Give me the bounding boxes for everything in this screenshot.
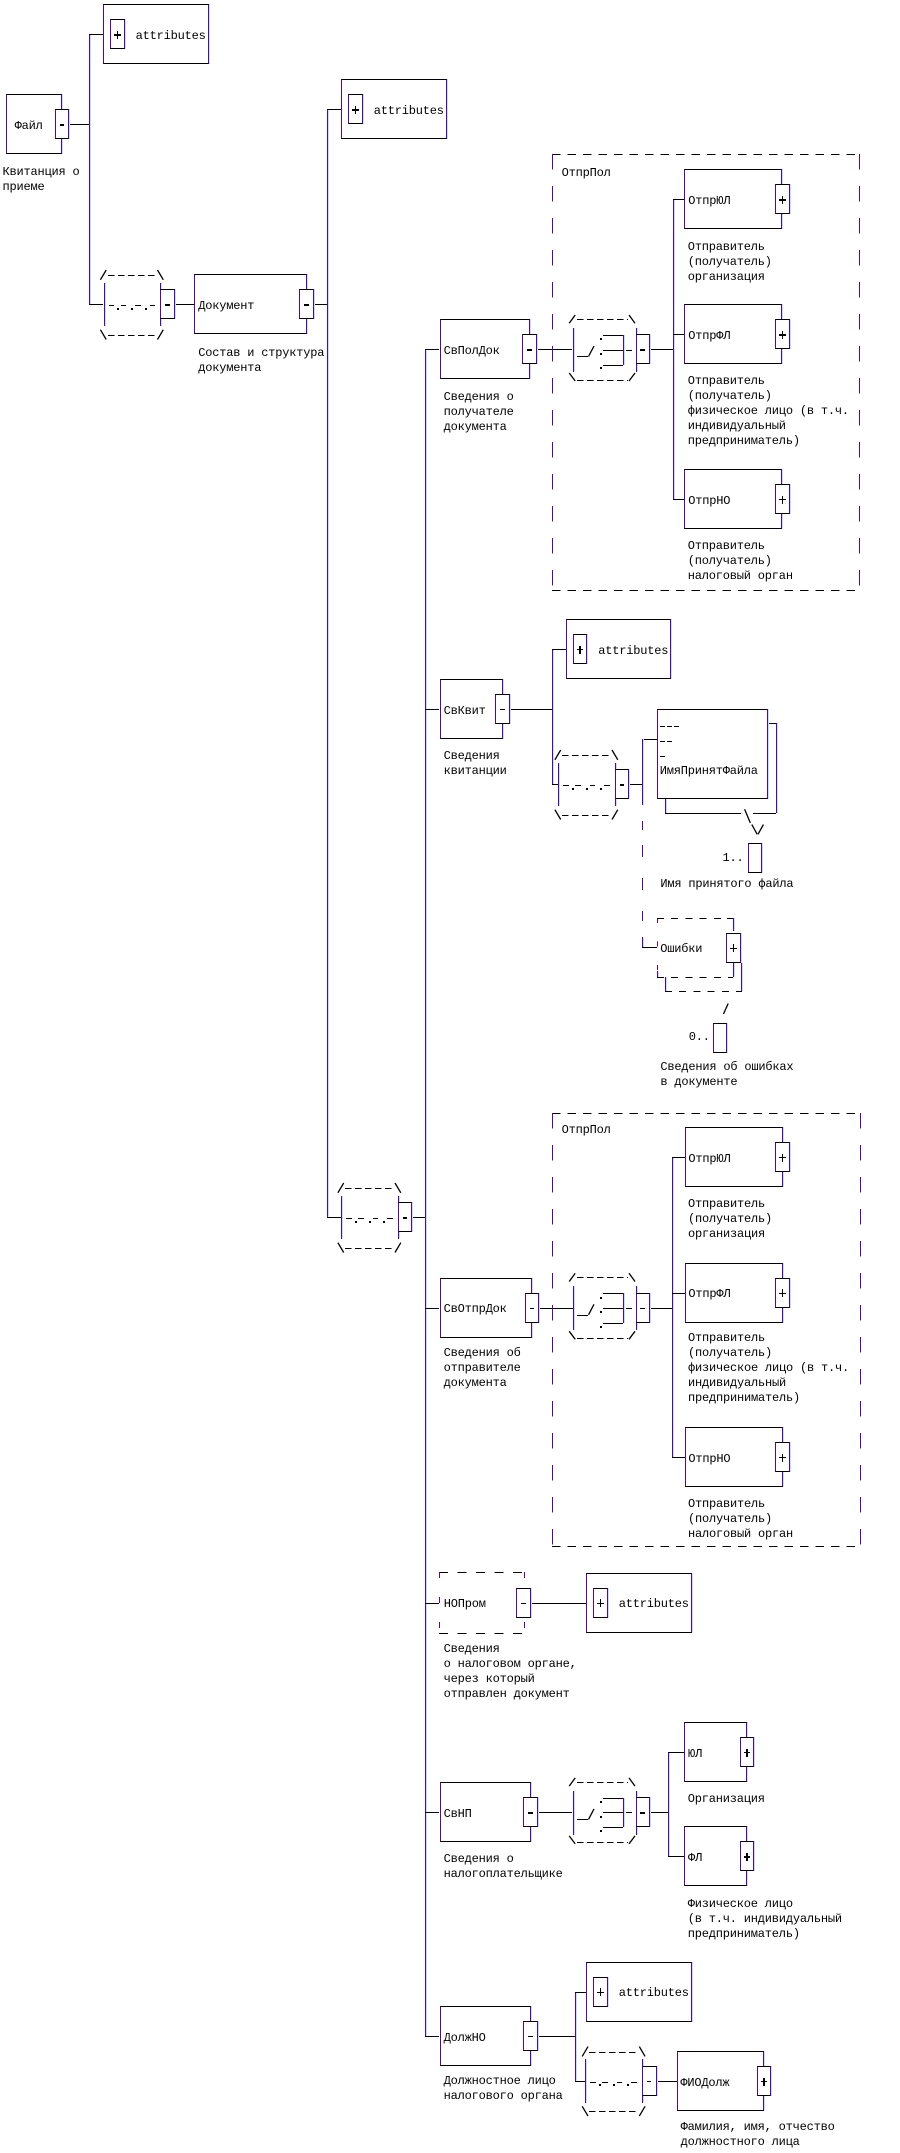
sequence2 (СвКвит children) mid dash 4 — [604, 785, 610, 786]
annotation Состав и структура документа — [198, 346, 324, 376]
wire: trunk choice1 branches — [673, 199, 674, 499]
element СвПолДок — [440, 319, 530, 379]
collapse - of СвКвит — [495, 694, 510, 724]
ИмяПринятФайла back right — [776, 723, 777, 813]
sequence4 (ДолжНО children) left bar — [585, 2059, 586, 2103]
ИмяПринятФайла back left stub — [665, 799, 666, 813]
annotation Сведения квитанции — [444, 749, 507, 779]
choice1 (СвПолДок) dot bottom — [600, 367, 602, 369]
label attributes (СвКвит) — [598, 644, 668, 659]
annotation ОтпрФЛ (2) — [688, 1331, 849, 1406]
wire: to ИмяПринятФайла box — [642, 739, 656, 740]
wire: trunk3 to ДолжНО — [425, 2036, 439, 2037]
sequence2 (СвКвит children) mid dash 1 — [563, 785, 569, 786]
Ошибки shadow left stub — [665, 977, 666, 991]
sequence4 (ДолжНО children) bottom dashes — [589, 2111, 637, 2112]
collapse - of СвОтпрДок — [525, 1293, 540, 1323]
choice3 (СвНП) mid out dash — [626, 1812, 632, 1813]
wire: trunk СвКвит children — [552, 649, 553, 785]
sequence3 (Документ children) bottom dashes — [345, 1248, 393, 1249]
label ОтпрНО (1) — [688, 494, 730, 509]
ИмяПринятФайла inner dash r3a — [660, 756, 665, 757]
group2 right — [860, 1113, 861, 1546]
sequence1 (Файл/Документ row) bottom dashes — [108, 335, 156, 336]
expand + of Ошибки — [726, 933, 741, 963]
sequence3 (Документ children) right bar — [398, 1196, 399, 1240]
element ДолжНО — [440, 2006, 531, 2066]
choice2 (СвОтпрДок) mid out dash — [626, 1308, 632, 1309]
sequence2 (СвКвит children) mid dash 3 — [590, 785, 596, 786]
expand + of attributes (НОПром) — [593, 1588, 608, 1618]
element ОтпрЮЛ (1) — [684, 169, 782, 229]
choice3 (СвНП) branch line top — [603, 1798, 623, 1799]
choice1 (СвПолДок) right bar — [636, 328, 637, 372]
label СвОтпрДок — [444, 1302, 507, 1317]
wire: trunk ДолжНО children — [575, 1992, 576, 2081]
element ФЛ — [684, 1826, 747, 1886]
expand + of ОтпрФЛ (1) — [775, 319, 790, 349]
label ФЛ — [688, 1851, 702, 1866]
Ошибки corner BL v — [657, 971, 658, 977]
element ОтпрФЛ (1) — [684, 304, 782, 364]
sequence3 (Документ children) mid dot 3 — [383, 1221, 385, 1223]
choice3 (СвНП) branch line mid — [603, 1812, 623, 1813]
Ошибки corner BL h — [657, 977, 663, 978]
annotation Сведения об отправителе документа — [444, 1346, 521, 1391]
Ошибки shadow right — [741, 963, 742, 991]
ИмяПринятФайла inner dash r2b — [667, 741, 672, 742]
label СвПолДок — [444, 344, 500, 359]
sequence1 (Файл/Документ row) top dashes — [108, 275, 156, 276]
group1 right — [859, 154, 860, 590]
wire: СвОтпрДок minus to choice2 — [539, 1308, 572, 1309]
wire: trunk1 to attributes1 — [89, 34, 103, 35]
choice2 (СвОтпрДок) branch line top — [603, 1293, 623, 1294]
choice1 (СвПолДок) dot top — [600, 338, 602, 340]
sequence3 (Документ children) top dashes — [345, 1188, 393, 1189]
sequence1 (Файл/Документ row) left bar — [104, 283, 105, 327]
wire: trunk5 to ОтпрЮЛ2 — [672, 1157, 685, 1158]
element attributes (НОПром) — [586, 1573, 692, 1633]
choice1 (СвПолДок) dot mid — [600, 353, 602, 355]
choice1 (СвПолДок) top dashes — [577, 319, 628, 320]
expand + of attributes (Файл) — [110, 19, 125, 49]
expand + of attributes (ДолжНО) — [593, 1977, 608, 2007]
choice3 (СвНП) left bar — [573, 1791, 574, 1835]
sequence4 (ДолжНО children) mid dot 3 — [627, 2084, 629, 2086]
sequence3 (Документ children) mid dash 4 — [387, 1218, 393, 1219]
expand + of ОтпрЮЛ (2) — [775, 1142, 790, 1172]
НОПром left — [439, 1572, 440, 1633]
wire: trunk6 to ФЛ — [668, 1856, 684, 1857]
collapse - of Документ — [299, 289, 314, 319]
collapse - of choice3 — [636, 1797, 651, 1827]
wire: big sequence minus to trunk3 — [412, 1217, 425, 1218]
sequence3 (Документ children) mid dash 1 — [346, 1218, 352, 1219]
collapse - of choice2 — [636, 1293, 651, 1323]
element ИмяПринятФайла front box — [657, 709, 768, 799]
wire: choice2 minus to trunk5 — [650, 1308, 672, 1309]
wire: СвКвит minus to trunkQ — [510, 709, 552, 710]
sequence2 (СвКвит children) bottom dashes — [562, 815, 610, 816]
annotation Сведения о получателе документа — [444, 390, 514, 435]
wire: СвПолДок minus to choice1 — [537, 349, 573, 350]
Ошибки right top solid — [733, 918, 734, 932]
wire: trunk from sequence to Документ children — [425, 349, 426, 2036]
wire: choice1 minus to trunk4 — [650, 349, 673, 350]
choice2 (СвОтпрДок) bottom dashes — [577, 1338, 628, 1339]
sequence2 (СвКвит children) top dashes — [562, 755, 610, 756]
choice1 (СвПолДок) branch line mid — [603, 350, 623, 351]
group2 bottom — [552, 1546, 860, 1547]
wire: trunk4 to ОтпрФЛ — [673, 334, 685, 335]
Ошибки shadow corner L — [665, 991, 670, 992]
sequence1 (Файл/Документ row) mid dash 2 — [121, 305, 127, 306]
НОПром right — [524, 1572, 525, 1633]
label attributes (Файл) — [136, 29, 206, 44]
collapse - of НОПром — [516, 1588, 531, 1618]
label ОтпрФЛ (1) — [688, 329, 730, 344]
wire: Документ minus to trunk2 — [314, 304, 328, 305]
element ЮЛ — [684, 1722, 747, 1782]
dash segment 910.5 — [642, 911, 643, 922]
wire: sequence1 to Документ — [175, 304, 195, 305]
annotation НОПром — [444, 1642, 577, 1702]
choice1 (СвПолДок) bottom dashes — [577, 380, 628, 381]
group1 bottom — [552, 590, 860, 591]
Ошибки left — [657, 918, 658, 977]
label НОПром — [444, 1597, 486, 1612]
wire: trunk1 to sequence1 — [89, 304, 103, 305]
group1 top — [552, 154, 860, 155]
sequence1 (Файл/Документ row) right bar — [160, 283, 161, 327]
collapse - of СвПолДок — [522, 334, 537, 364]
wire: trunk3 to СвПолДок — [425, 349, 439, 350]
wire: trunk3 to НОПром — [425, 1603, 439, 1604]
wire: trunk choice2 branches — [672, 1157, 673, 1457]
collapse - of Файл — [55, 109, 70, 139]
annotation Имя принятого файла — [660, 877, 793, 892]
sequence4 (ДолжНО children) mid dash 2 — [602, 2082, 608, 2083]
wire: СвНП minus to choice3 — [538, 1812, 573, 1813]
ИмяПринятФайла back bottom left — [665, 813, 741, 814]
wire: trunk4 to ОтпрЮЛ — [673, 199, 685, 200]
choice1 (СвПолДок) left bar — [573, 328, 574, 372]
Ошибки corner TL h — [657, 918, 663, 919]
choice3 (СвНП) bottom dashes — [577, 1842, 628, 1843]
expand + of ОтпрНО (2) — [775, 1442, 790, 1472]
annotation Квитанция о приеме — [3, 165, 80, 195]
wire: trunk5 to ОтпрФЛ2 — [672, 1293, 685, 1294]
sequence4 (ДолжНО children) top dashes — [589, 2052, 637, 2053]
label ДолжНО — [444, 2031, 486, 2046]
group label ОтпрПол (1) — [562, 166, 611, 181]
collapse - of sequence4 — [642, 2066, 657, 2096]
element ОтпрФЛ (2) — [685, 1263, 783, 1323]
choice2 (СвОтпрДок) right bar — [636, 1286, 637, 1330]
collapse - of sequence2 — [615, 769, 630, 799]
wire: trunk from Документ to children — [327, 109, 328, 1217]
expand + of attributes (Документ) — [348, 94, 363, 124]
wire: trunkQ to attributes3 — [552, 649, 566, 650]
dash segment 877.8 — [642, 878, 643, 891]
choice2 (СвОтпрДок) top dashes — [577, 1277, 628, 1278]
choice3 (СвНП) dot top — [600, 1801, 602, 1803]
element СвОтпрДок — [440, 1278, 533, 1338]
sequence2 (СвКвит children) mid dot 2 — [586, 788, 588, 790]
choice2 (СвОтпрДок) dot bottom — [600, 1326, 602, 1328]
sequence4 (ДолжНО children) mid dash 4 — [631, 2082, 637, 2083]
choice3 (СвНП) branch bracket — [623, 1798, 624, 1828]
collapse - of sequence1 — [160, 289, 175, 319]
wire: sequence4 minus to ФИОДолж — [657, 2081, 678, 2082]
element attributes (ДолжНО) — [586, 1962, 692, 2022]
wire: trunk4 to ОтпрНО — [673, 499, 685, 500]
wire: trunk5 to ОтпрНО2 — [672, 1457, 685, 1458]
sequence2 (СвКвит children) mid dot 1 — [572, 788, 574, 790]
wire: trunk7 to attributes5 — [575, 1992, 587, 1993]
element Документ — [194, 274, 306, 334]
sequence4 (ДолжНО children) mid dash 3 — [617, 2082, 623, 2083]
annotation ОтпрНО (2) — [688, 1497, 793, 1542]
choice3 (СвНП) branch line bottom — [603, 1827, 623, 1828]
label Документ — [198, 299, 254, 314]
wire: Файл minus to trunk1 — [69, 124, 89, 125]
choice2 (СвОтпрДок) dot top — [600, 1297, 602, 1299]
annotation ФИОДолж — [681, 2120, 835, 2150]
element attributes (Документ) — [341, 79, 447, 139]
wire: choice3 minus to trunk6 — [650, 1812, 668, 1813]
label 0.. — [689, 1030, 710, 1045]
element ФИОДолж — [677, 2051, 764, 2111]
ИмяПринятФайла back top — [768, 723, 776, 724]
annotation Сведения об ошибках в документе — [660, 1060, 793, 1090]
label Файл — [15, 119, 43, 134]
choice1 (СвПолДок) branch line top — [603, 335, 623, 336]
ИмяПринятФайла inner dash r1a — [660, 726, 665, 727]
ИмяПринятФайла inner dash r1b — [667, 726, 672, 727]
expand + of ОтпрФЛ (2) — [775, 1278, 790, 1308]
annotation ОтпрЮЛ (2) — [688, 1197, 772, 1242]
label ИмяПринятФайла — [660, 764, 758, 779]
sequence4 (ДолжНО children) mid dot 1 — [599, 2084, 601, 2086]
Ошибки top — [657, 918, 733, 919]
wire: НОПром minus to attributes4 — [531, 1603, 586, 1604]
sequence2 (СвКвит children) mid dash 2 — [575, 785, 581, 786]
wire: trunk6 to ЮЛ — [668, 1752, 684, 1753]
НОПром top — [439, 1572, 524, 1573]
annotation ОтпрЮЛ (1) — [688, 240, 772, 285]
wire: ДолжНО minus to trunk7 — [538, 2036, 575, 2037]
label СвКвит — [444, 704, 486, 719]
sequence4 (ДолжНО children) mid dash 1 — [590, 2082, 596, 2083]
sequence1 (Файл/Документ row) mid dot 3 — [145, 308, 147, 310]
sequence2 (СвКвит children) mid dot 3 — [600, 788, 602, 790]
label ОтпрЮЛ (1) — [688, 194, 730, 209]
wire: seq2 vertical solid top — [642, 739, 643, 805]
element ОтпрЮЛ (2) — [685, 1127, 783, 1187]
label ФИОДолж — [680, 2076, 729, 2091]
collapse - of choice1 — [636, 334, 651, 364]
choice1 (СвПолДок) mid out dash — [626, 350, 632, 351]
sequence3 (Документ children) mid dash 3 — [373, 1218, 379, 1219]
expand + of ФЛ — [740, 1841, 755, 1871]
annotation Физическое лицо — [688, 1897, 842, 1942]
expand + of ОтпрНО (1) — [775, 484, 790, 514]
group2 left — [552, 1113, 553, 1546]
sequence4 (ДолжНО children) right bar — [642, 2059, 643, 2103]
wire: trunk7 to sequence4 — [575, 2081, 586, 2082]
annotation ДолжНО — [444, 2074, 563, 2104]
expand + of ЮЛ — [740, 1737, 755, 1767]
label ОтпрФЛ (2) — [688, 1287, 730, 1302]
choice1 (СвПолДок) underscore — [577, 356, 588, 357]
label attributes (ДолжНО) — [619, 1986, 689, 2001]
choice3 (СвНП) dot bottom — [600, 1830, 602, 1832]
Ошибки corner TR h — [727, 918, 733, 919]
choice2 (СвОтпрДок) branch line mid — [603, 1308, 623, 1309]
sequence4 (ДолжНО children) mid dot 2 — [613, 2084, 615, 2086]
wire: to Ошибки box — [642, 947, 656, 948]
group label ОтпрПол (2) — [562, 1123, 611, 1138]
wire: trunkQ to sequence2 — [552, 784, 558, 785]
expand + of ОтпрЮЛ (1) — [775, 184, 790, 214]
element attributes (СвКвит) — [566, 619, 672, 679]
choice3 (СвНП) right bar — [636, 1791, 637, 1835]
sequence2 (СвКвит children) left bar — [558, 763, 559, 807]
sequence3 (Документ children) mid dash 2 — [358, 1218, 364, 1219]
expand + of attributes (СвКвит) — [573, 634, 588, 664]
wire: trunk2 to attributes2 — [327, 109, 341, 110]
wire: seq2 vertical solid bottom — [642, 937, 643, 947]
choice2 (СвОтпрДок) branch line bottom — [603, 1323, 623, 1324]
label ОтпрНО (2) — [688, 1452, 730, 1467]
Ошибки shadow bottom — [665, 991, 742, 992]
element СвКвит — [440, 679, 503, 739]
label 1.. — [723, 851, 744, 866]
sequence3 (Документ children) mid dot 1 — [355, 1221, 357, 1223]
collapse - of sequence3 — [398, 1202, 413, 1232]
wire: trunk3 to СвОтпрДок — [425, 1308, 439, 1309]
occurrence box 0..unbounded — [713, 1023, 727, 1053]
choice2 (СвОтпрДок) dot mid — [600, 1311, 602, 1313]
label ОтпрЮЛ (2) — [688, 1152, 730, 1167]
element Файл — [6, 94, 62, 154]
label Ошибки — [660, 942, 702, 957]
choice2 (СвОтпрДок) underscore — [577, 1315, 588, 1316]
sequence2 (СвКвит children) right bar — [615, 763, 616, 807]
sequence3 (Документ children) left bar — [341, 1196, 342, 1240]
ИмяПринятФайла inner dash r1c — [674, 726, 679, 727]
sequence1 (Файл/Документ row) mid dash 1 — [109, 305, 115, 306]
Ошибки right bottom solid — [733, 963, 734, 977]
wire: trunk3 to СвНП — [425, 1812, 439, 1813]
dash segment 820.8 — [642, 821, 643, 831]
wire: trunk2 elbow to big sequence — [327, 1217, 341, 1218]
label attributes (Документ) — [374, 104, 444, 119]
choice1 (СвПолДок) branch bracket — [623, 335, 624, 365]
dash segment 845 — [642, 845, 643, 857]
annotation ОтпрНО (1) — [688, 539, 793, 584]
НОПром bottom — [439, 1633, 524, 1634]
group2 top — [552, 1113, 860, 1114]
wire: trunk from Файл to children — [89, 34, 90, 304]
sequence1 (Файл/Документ row) mid dash 3 — [135, 305, 141, 306]
ИмяПринятФайла back bottom right — [753, 813, 777, 814]
choice3 (СвНП) dot mid — [600, 1816, 602, 1818]
sequence1 (Файл/Документ row) mid dash 4 — [150, 305, 156, 306]
collapse - of СвНП — [523, 1797, 538, 1827]
annotation Организация — [688, 1792, 765, 1807]
Ошибки bottom — [657, 977, 733, 978]
collapse - of ДолжНО — [523, 2021, 538, 2051]
annotation ОтпрФЛ (1) — [688, 374, 849, 449]
sequence1 (Файл/Документ row) mid dot 2 — [131, 308, 133, 310]
element ОтпрНО (2) — [685, 1427, 783, 1487]
choice1 (СвПолДок) branch line bottom — [603, 365, 623, 366]
choice3 (СвНП) top dashes — [577, 1782, 628, 1783]
annotation СвНП — [444, 1852, 563, 1882]
choice3 (СвНП) underscore — [577, 1819, 588, 1820]
label ЮЛ — [688, 1747, 702, 1762]
Ошибки shadow corner R — [736, 991, 741, 992]
element attributes (Файл) — [103, 4, 209, 64]
choice2 (СвОтпрДок) left bar — [573, 1286, 574, 1330]
ИмяПринятФайла inner dash r2a — [660, 741, 665, 742]
sequence3 (Документ children) mid dot 2 — [369, 1221, 371, 1223]
label СвНП — [444, 1807, 472, 1822]
element ОтпрНО (1) — [684, 469, 782, 529]
group1 left — [552, 154, 553, 590]
wire: sequence2 minus out — [629, 784, 642, 785]
wire: trunk3 to СвКвит — [425, 709, 439, 710]
sequence1 (Файл/Документ row) mid dot 1 — [117, 308, 119, 310]
choice2 (СвОтпрДок) branch bracket — [623, 1293, 624, 1323]
element СвНП — [440, 1782, 531, 1842]
occurrence box 1..unbounded — [748, 843, 763, 873]
expand + of ФИОДолж — [757, 2066, 772, 2096]
label attributes (НОПром) — [619, 1597, 689, 1612]
wire: trunk choice3 branches — [668, 1752, 669, 1856]
